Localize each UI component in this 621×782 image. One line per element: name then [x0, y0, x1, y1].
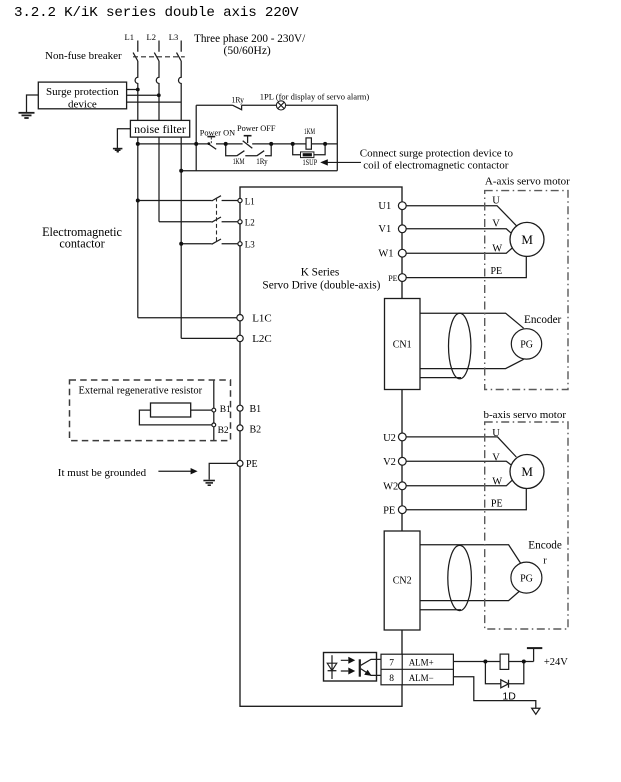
svg-text:L3: L3: [245, 240, 255, 250]
svg-text:L1: L1: [125, 32, 134, 42]
svg-text:3.2.2 K/iK series double axis: 3.2.2 K/iK series double axis 220V: [14, 5, 299, 21]
svg-text:PG: PG: [520, 574, 533, 585]
svg-text:V: V: [492, 452, 500, 463]
svg-text:L1C: L1C: [252, 312, 272, 324]
svg-text:1Ry: 1Ry: [232, 94, 245, 104]
svg-text:noise filter: noise filter: [134, 122, 186, 136]
svg-text:(50/60Hz): (50/60Hz): [224, 45, 271, 57]
svg-text:contactor: contactor: [59, 237, 104, 251]
svg-text:Surge protection: Surge protection: [46, 86, 119, 98]
svg-text:B2: B2: [250, 425, 262, 436]
svg-text:PG: PG: [520, 340, 533, 351]
svg-text:coil of electromagnetic contac: coil of electromagnetic contactor: [363, 159, 508, 171]
svg-text:Non-fuse breaker: Non-fuse breaker: [45, 50, 122, 62]
svg-text:W: W: [492, 244, 502, 255]
svg-text:W2: W2: [383, 482, 398, 493]
svg-text:K Series: K Series: [301, 266, 340, 278]
svg-text:1PL (for display of servo alar: 1PL (for display of servo alarm): [260, 91, 370, 101]
svg-text:PE: PE: [491, 498, 503, 509]
svg-text:B1: B1: [220, 405, 231, 415]
svg-text:L2C: L2C: [252, 333, 272, 345]
svg-text:B2: B2: [218, 426, 229, 436]
svg-text:1KM: 1KM: [304, 126, 315, 136]
svg-text:7: 7: [389, 659, 394, 669]
svg-text:U2: U2: [383, 433, 396, 444]
svg-text:Encode: Encode: [528, 540, 562, 552]
svg-text:r: r: [543, 556, 547, 567]
svg-text:B1: B1: [250, 404, 262, 415]
svg-text:U: U: [492, 428, 500, 439]
svg-text:+24V: +24V: [544, 657, 568, 668]
svg-text:Connect surge protection devic: Connect surge protection device to: [360, 147, 514, 159]
svg-text:L2: L2: [245, 218, 255, 228]
svg-text:It must be grounded: It must be grounded: [58, 467, 147, 479]
svg-text:PE: PE: [491, 266, 503, 277]
svg-text:Power ON: Power ON: [200, 129, 235, 138]
svg-text:External regenerative resistor: External regenerative resistor: [79, 386, 203, 397]
svg-text:W: W: [492, 476, 502, 487]
svg-text:Power OFF: Power OFF: [237, 124, 276, 133]
svg-text:A-axis servo motor: A-axis servo motor: [485, 175, 570, 187]
svg-text:ALM−: ALM−: [409, 673, 434, 683]
svg-text:U: U: [492, 196, 500, 207]
svg-text:V: V: [492, 218, 500, 229]
svg-text:M: M: [521, 464, 533, 479]
svg-text:PE: PE: [246, 459, 258, 470]
svg-text:CN1: CN1: [393, 340, 412, 351]
svg-text:V1: V1: [378, 224, 391, 235]
svg-text:8: 8: [389, 674, 394, 684]
svg-text:1KM: 1KM: [233, 156, 245, 166]
svg-text:1SUP: 1SUP: [303, 157, 318, 167]
svg-text:PE: PE: [388, 274, 397, 283]
svg-text:b-axis servo motor: b-axis servo motor: [484, 409, 567, 421]
svg-text:L1: L1: [245, 196, 255, 206]
svg-text:V2: V2: [383, 457, 396, 468]
svg-text:PE: PE: [383, 505, 395, 516]
svg-text:L3: L3: [169, 32, 178, 42]
svg-text:L2: L2: [147, 32, 156, 42]
svg-text:ALM+: ALM+: [409, 657, 434, 667]
svg-text:U1: U1: [378, 201, 391, 212]
svg-text:Encoder: Encoder: [524, 314, 562, 326]
svg-text:M: M: [521, 232, 533, 247]
svg-text:Three phase 200 - 230V/: Three phase 200 - 230V/: [194, 33, 306, 45]
svg-text:1D: 1D: [502, 690, 516, 702]
svg-text:W1: W1: [378, 249, 393, 260]
svg-text:CN2: CN2: [393, 575, 412, 586]
svg-text:1Ry: 1Ry: [256, 156, 268, 166]
svg-text:Servo Drive (double-axis): Servo Drive (double-axis): [262, 280, 380, 292]
svg-text:device: device: [68, 99, 97, 111]
